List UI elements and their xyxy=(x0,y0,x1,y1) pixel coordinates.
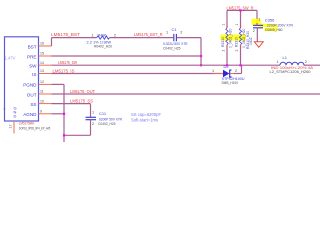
svg-text:LM5175_IS: LM5175_IS xyxy=(53,68,75,73)
pin name SS xyxy=(30,102,36,107)
node junction C1 drop to SW xyxy=(200,64,202,66)
svg-text:1: 1 xyxy=(258,18,260,22)
capacitor C1 xyxy=(163,27,188,51)
svg-text:2: 2 xyxy=(114,33,116,37)
svg-text:2: 2 xyxy=(235,69,237,73)
wire AGND xyxy=(52,113,65,115)
svg-text:SS: SS xyxy=(30,102,36,107)
pin number 17 xyxy=(9,124,13,128)
svg-text:LM5175MH: LM5175MH xyxy=(19,122,35,126)
node LM5175_SW_R label xyxy=(227,5,254,10)
node junction PRE to C1 drop xyxy=(200,55,202,57)
pin number 15 xyxy=(40,52,44,56)
svg-text:6200P 50V X7R: 6200P 50V X7R xyxy=(99,117,122,121)
svg-text:2: 2 xyxy=(253,29,255,33)
pin name GND vertical xyxy=(13,106,16,119)
pin 17 stub GND bottom xyxy=(13,121,15,134)
wire C356 to ground xyxy=(256,28,258,42)
pin 11 stub OUT xyxy=(39,93,52,95)
svg-text:SOP16_0P65_6P4_EP_H45: SOP16_0P65_6P4_EP_H45 xyxy=(19,126,51,130)
svg-text:C356: C356 xyxy=(265,18,275,23)
wire SS xyxy=(52,104,91,117)
svg-text:LM5175_SS: LM5175_SS xyxy=(70,98,93,103)
node junction SW at left resistor xyxy=(226,64,228,66)
wire BST from pin up to bst rail xyxy=(52,38,97,46)
svg-text:LM5175_OUT: LM5175_OUT xyxy=(70,89,95,94)
svg-text:LM5175_BST_R: LM5175_BST_R xyxy=(134,32,163,37)
svg-text:Soft-start=1ms: Soft-start=1ms xyxy=(131,117,158,122)
svg-text:2: 2 xyxy=(222,50,226,52)
svg-text:0.022U 50V X7R: 0.022U 50V X7R xyxy=(163,42,188,46)
svg-text:L1: L1 xyxy=(283,55,288,60)
pin 9 stub AGND xyxy=(39,113,52,115)
svg-text:0_0402_H20: 0_0402_H20 xyxy=(229,28,233,48)
svg-text:1: 1 xyxy=(222,24,226,26)
pin 16 stub BST xyxy=(39,45,52,47)
svg-text:13: 13 xyxy=(40,69,44,73)
pin name IS xyxy=(32,72,36,77)
wire PGND down xyxy=(52,84,65,142)
wire C11 bottom to gnd rail xyxy=(64,120,91,136)
svg-text:SW: SW xyxy=(29,64,37,69)
capacitor C11 xyxy=(86,110,123,126)
text mark inside IC near AGND xyxy=(3,107,5,111)
svg-text:C0402_H25: C0402_H25 xyxy=(98,122,116,126)
svg-text:9: 9 xyxy=(40,110,42,114)
node LM5175_BST_R label xyxy=(134,32,163,37)
pin number 10 xyxy=(40,99,44,103)
svg-text:OUT: OUT xyxy=(27,92,37,97)
pin number 12 xyxy=(40,80,44,84)
pin number 14 xyxy=(40,61,44,65)
highlight yellow right resistor xyxy=(233,35,246,41)
note 1.47V inside IC xyxy=(5,56,16,61)
svg-text:LM5175_SW: LM5175_SW xyxy=(58,60,78,65)
svg-text:2: 2 xyxy=(235,50,239,52)
node LM5175_BST label xyxy=(51,32,80,37)
svg-text:LM5175_BST: LM5175_BST xyxy=(51,32,80,37)
pin 12 stub PGND xyxy=(39,83,52,85)
diode D2 xyxy=(212,64,245,85)
node LM5175_SS label xyxy=(70,98,93,103)
pin name PGND xyxy=(23,83,37,88)
svg-text:R2310: R2310 xyxy=(235,37,239,47)
svg-text:SS cap=6200pF: SS cap=6200pF xyxy=(131,112,161,117)
svg-text:PGND: PGND xyxy=(23,83,37,88)
pin name OUT xyxy=(27,92,37,97)
pin 15 stub PRE xyxy=(39,55,52,57)
svg-text:R0402_H20: R0402_H20 xyxy=(94,44,112,48)
svg-text:14: 14 xyxy=(40,61,44,65)
IC footprint SOP16_0P65_6P4_EP_H45 xyxy=(19,126,51,130)
svg-text:IS: IS xyxy=(32,72,36,77)
svg-text:AGND: AGND xyxy=(23,112,37,117)
wire diode cathode up to SW xyxy=(234,65,242,73)
svg-text:R2310: R2310 xyxy=(221,37,225,47)
pin name AGND xyxy=(23,112,37,117)
resistor R2310 right vertical xyxy=(235,24,254,66)
svg-text:2: 2 xyxy=(180,30,182,34)
pin 14 stub SW xyxy=(39,64,52,66)
pin name PRE xyxy=(27,54,36,59)
svg-text:BST: BST xyxy=(28,44,37,49)
node LM5175_IS label xyxy=(53,68,75,73)
svg-text:C0402_H25: C0402_H25 xyxy=(163,46,181,50)
svg-text:16: 16 xyxy=(40,42,44,46)
resistor R486 xyxy=(87,32,117,48)
pin number 13 xyxy=(40,69,44,73)
capacitor C356 xyxy=(253,18,294,33)
pin name SW xyxy=(29,64,37,69)
ground symbol xyxy=(254,42,263,47)
pin number 11 xyxy=(40,90,44,94)
node LM5175_OUT label xyxy=(70,89,95,94)
svg-text:17: 17 xyxy=(9,124,13,128)
svg-text:R486: R486 xyxy=(98,32,108,37)
svg-text:C11: C11 xyxy=(99,111,107,116)
IC part value LM5175MH xyxy=(19,122,35,126)
node LM5175_SW label xyxy=(58,60,78,65)
wire from C1 down to SW xyxy=(177,38,201,66)
svg-text:1: 1 xyxy=(235,24,239,26)
annotation SS cap xyxy=(131,112,161,117)
svg-text:1: 1 xyxy=(92,110,94,114)
svg-text:C1: C1 xyxy=(172,27,178,32)
wire SW_R rail top xyxy=(227,10,257,27)
wire OUT xyxy=(52,93,320,95)
highlight yellow left resistor xyxy=(221,35,234,41)
svg-text:1.47V: 1.47V xyxy=(5,56,16,61)
highlight yellow C356 swoosh xyxy=(252,19,279,31)
node junction SW at right resistor xyxy=(239,64,241,66)
svg-text:12: 12 xyxy=(40,80,44,84)
pin 10 stub SS xyxy=(39,103,52,105)
inductor L1 xyxy=(270,55,314,74)
resistor R2310 left vertical xyxy=(221,24,233,66)
svg-text:>: > xyxy=(3,107,5,111)
svg-text:L2_STMPC1206_H260: L2_STMPC1206_H260 xyxy=(270,70,311,74)
wire SW xyxy=(52,64,320,66)
annotation soft start xyxy=(131,117,158,122)
svg-text:2: 2 xyxy=(305,60,307,64)
svg-text:2200P 200V X7R: 2200P 200V X7R xyxy=(267,23,293,27)
pin number 16 xyxy=(40,42,44,46)
svg-text:2: 2 xyxy=(92,122,94,126)
IC U1 LM5175 body xyxy=(5,37,39,121)
svg-text:1: 1 xyxy=(277,60,279,64)
svg-text:11: 11 xyxy=(40,90,44,94)
svg-text:1: 1 xyxy=(212,69,214,73)
svg-text:15: 15 xyxy=(40,52,44,56)
svg-text:SMB_H100: SMB_H100 xyxy=(222,81,239,85)
svg-text:1: 1 xyxy=(92,33,94,37)
pin 13 stub IS xyxy=(39,73,52,75)
node junction SW_R xyxy=(239,9,241,11)
node junction AGND xyxy=(63,113,65,115)
svg-text:PRE: PRE xyxy=(27,54,36,59)
svg-text:10: 10 xyxy=(40,99,44,103)
pin number 9 xyxy=(40,110,42,114)
svg-text:D: D xyxy=(14,113,17,118)
svg-text:C0805_H80: C0805_H80 xyxy=(265,28,283,32)
pin name BST xyxy=(28,44,37,49)
svg-text:0402: 0402 xyxy=(249,37,253,45)
wire IS xyxy=(52,73,224,75)
wire PRE xyxy=(52,55,202,57)
node junction gnd rail xyxy=(63,134,65,136)
wire BST_R rail xyxy=(110,37,174,39)
svg-text:1: 1 xyxy=(166,30,168,34)
